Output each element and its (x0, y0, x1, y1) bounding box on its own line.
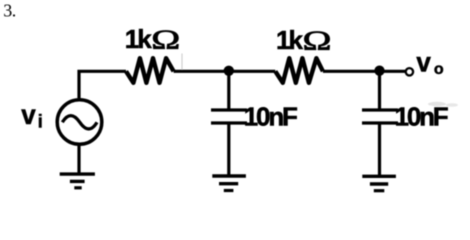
svg-text:10nF: 10nF (244, 101, 297, 131)
capacitor C2 top plate (362, 108, 398, 111)
wire left corner from source to resistor R1 (79, 71, 126, 98)
svg-text:v: v (21, 99, 35, 130)
wire node B down to capacitor C2 (378, 71, 381, 108)
output terminal open circle (406, 68, 413, 75)
resistor R1 1kOhm (126, 58, 174, 83)
sine wave inside source (62, 116, 97, 129)
svg-text:i: i (38, 111, 43, 131)
svg-text:1k: 1k (276, 25, 303, 55)
node A junction dot (224, 66, 234, 76)
faint artifact smudges above right 10nF label (428, 102, 446, 106)
wire source bottom to ground (77, 145, 80, 174)
svg-text:o: o (434, 61, 444, 78)
wire R1 to R2 through node A (174, 70, 276, 73)
svg-text:Ω: Ω (303, 26, 332, 56)
wire R2 to output terminal (323, 70, 406, 73)
svg-text:1k: 1k (125, 24, 152, 54)
svg-text:Ω: Ω (151, 25, 180, 55)
wire C1 to ground (227, 125, 230, 177)
wire node A down to capacitor C1 (227, 71, 230, 108)
faint artifact line right of R1 (181, 54, 183, 71)
ground under C2 (362, 175, 396, 178)
capacitor C1 top plate (211, 108, 247, 111)
wire C2 to ground (378, 125, 381, 177)
capacitor C1 bottom plate (211, 121, 247, 124)
svg-text:v: v (416, 47, 430, 78)
node B junction dot (374, 66, 384, 76)
capacitor C2 bottom plate (362, 121, 398, 124)
ground under C1 (212, 174, 246, 177)
ground under source (60, 172, 95, 175)
AC source circle VI (57, 100, 102, 145)
resistor R2 1kOhm (275, 58, 323, 83)
svg-text:3.: 3. (3, 1, 16, 21)
svg-text:10nF: 10nF (395, 101, 448, 131)
